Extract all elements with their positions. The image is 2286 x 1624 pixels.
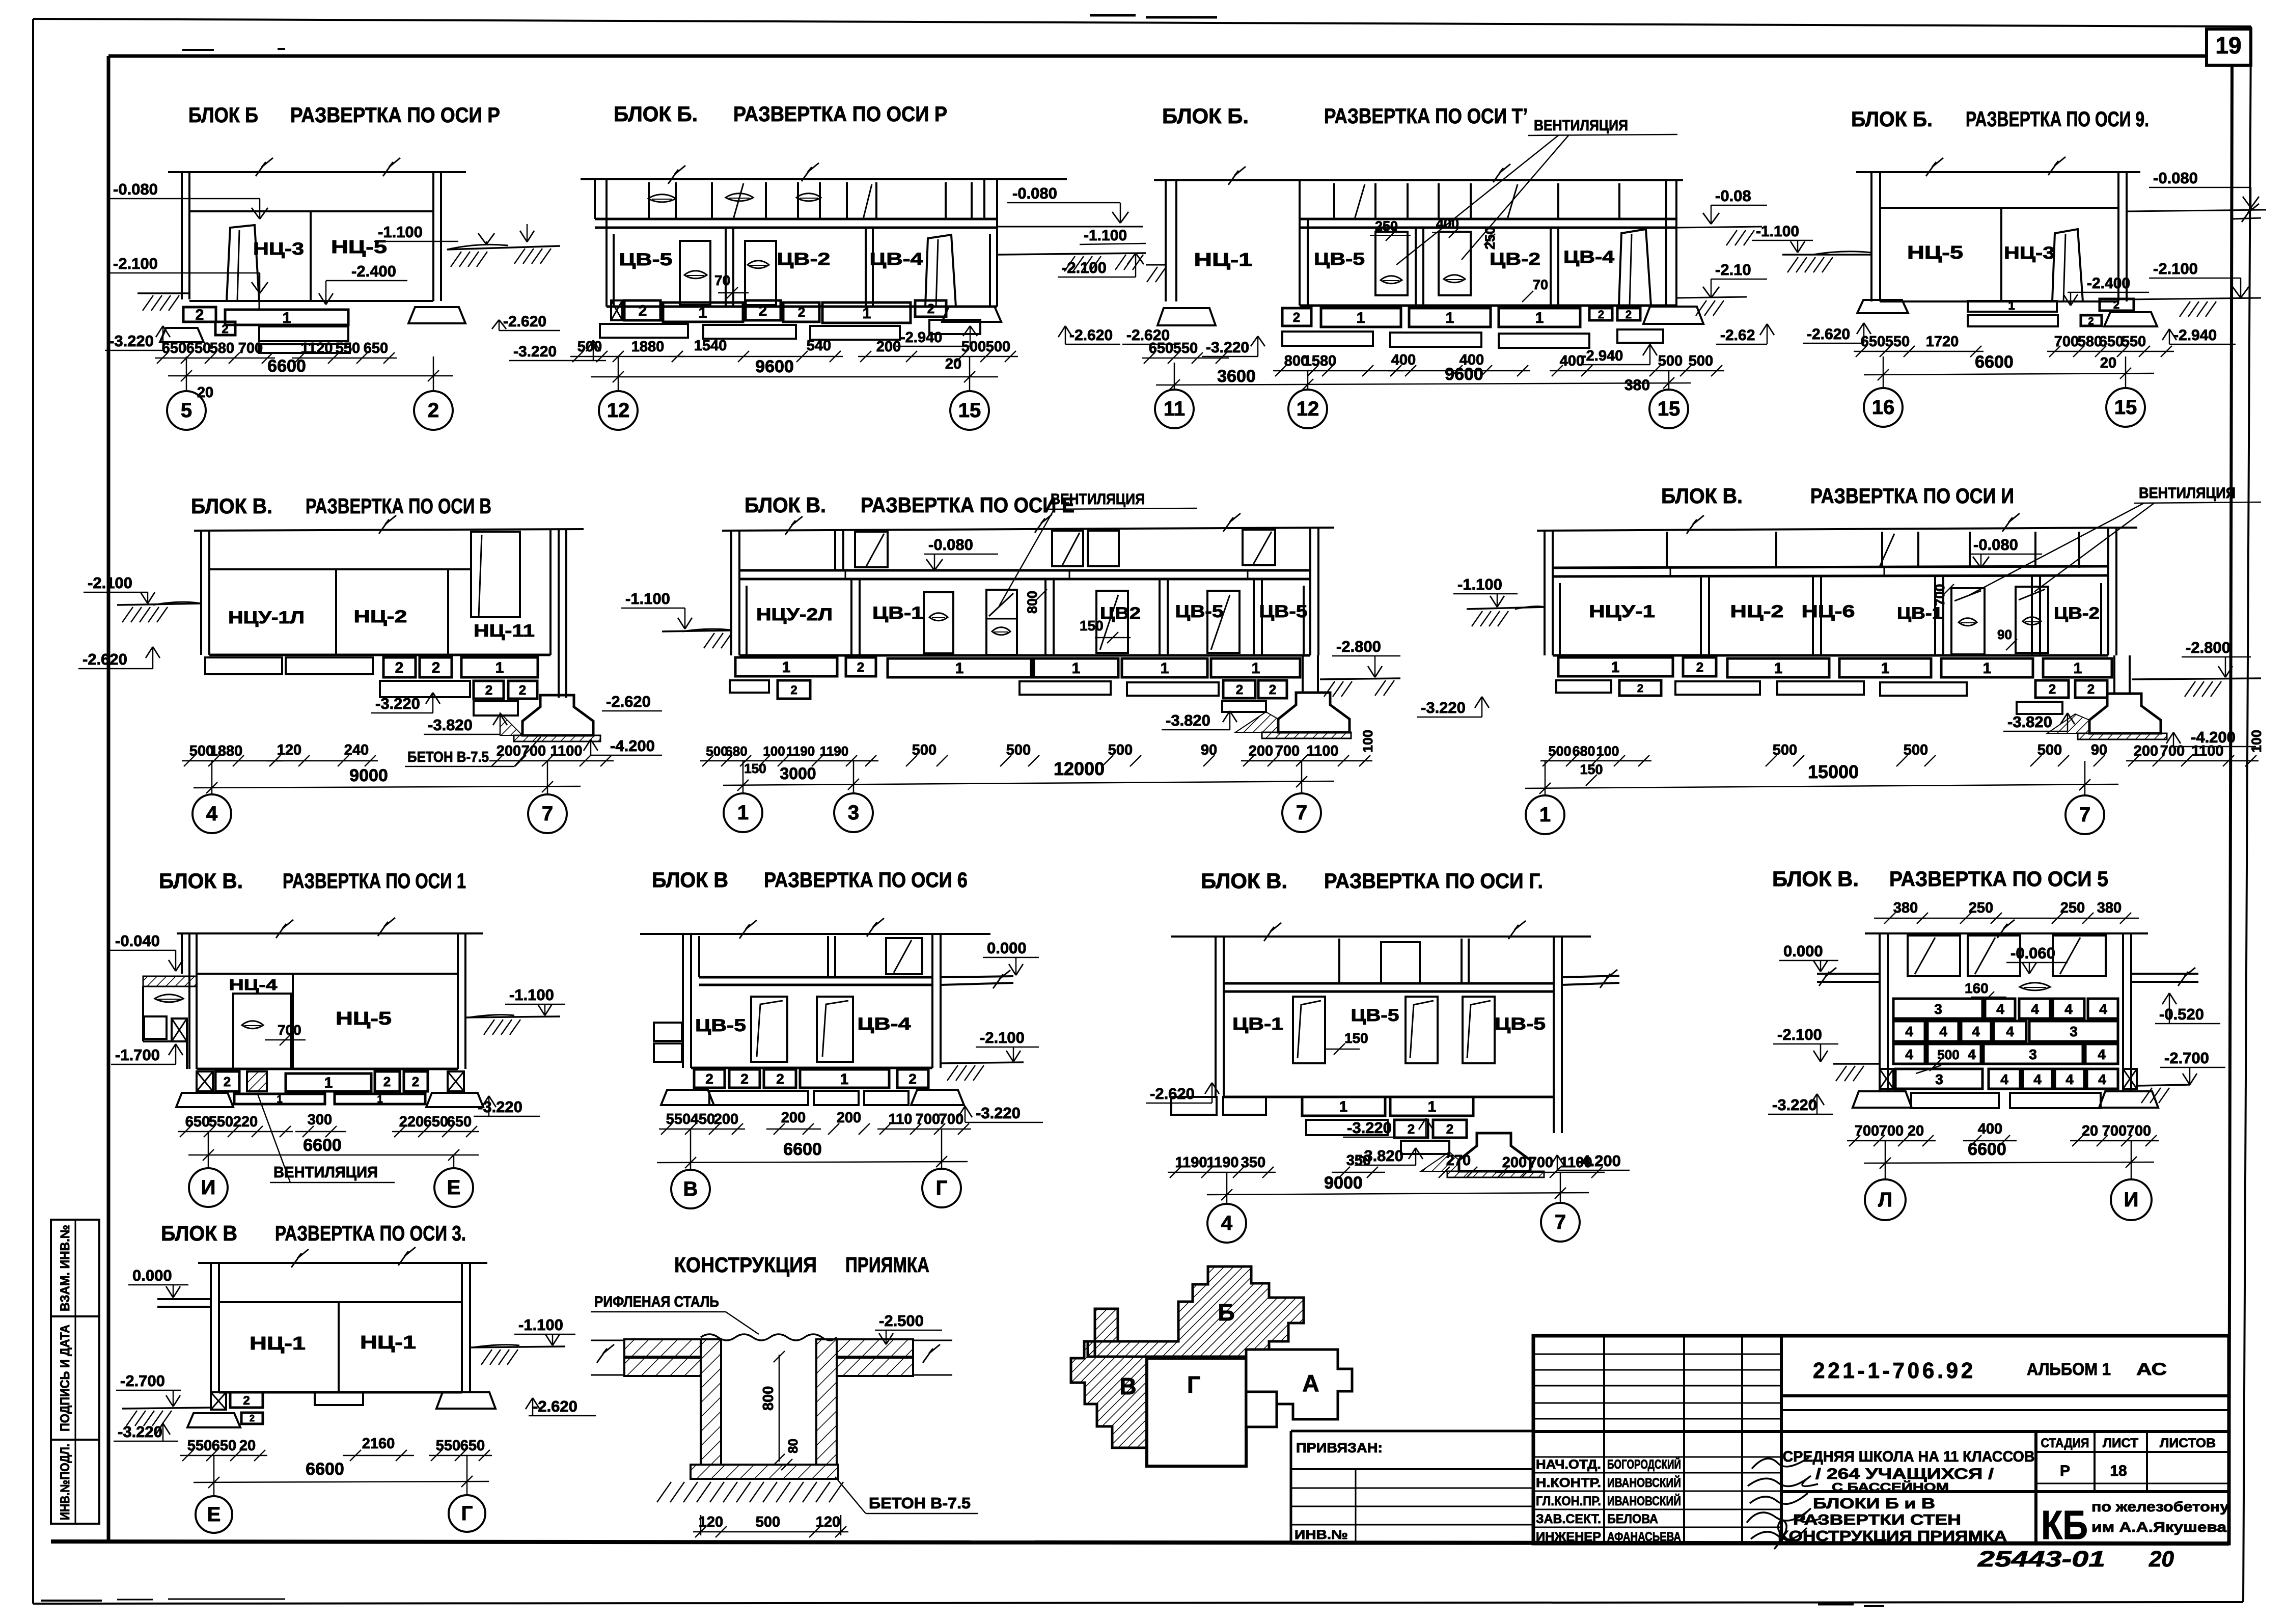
key plan block G (white) — [1147, 1358, 1246, 1466]
svg-text:250: 250 — [1969, 900, 1993, 916]
svg-text:160: 160 — [1965, 980, 1989, 996]
D6 sub overall 3000 — [780, 764, 816, 783]
D6 dimension chain — [700, 730, 1375, 776]
svg-text:700: 700 — [1879, 1123, 1904, 1139]
D6 foundation row3 strip — [1222, 701, 1266, 712]
svg-text:НЦ-2: НЦ-2 — [1730, 602, 1784, 621]
elevation D7 title — [1661, 484, 2014, 508]
svg-text:2: 2 — [705, 1071, 713, 1087]
svg-text:-3.220: -3.220 — [1347, 1119, 1392, 1137]
svg-text:20: 20 — [945, 356, 961, 372]
svg-text:-3.820: -3.820 — [1166, 711, 1210, 729]
D7 small dims 700 90 — [1932, 584, 2017, 650]
svg-text:2: 2 — [2087, 681, 2095, 697]
D8 annex vent symbol — [155, 995, 183, 1002]
svg-text:НЦ-1: НЦ-1 — [1194, 249, 1253, 270]
D2 window CV-5 — [680, 241, 710, 305]
D11 level -0.060 — [2006, 944, 2068, 974]
svg-text:БЛОК В.: БЛОК В. — [1772, 867, 1859, 891]
D2 dim 20 — [945, 356, 961, 372]
svg-text:200: 200 — [2134, 743, 2158, 759]
svg-text:-2.800: -2.800 — [1336, 638, 1381, 655]
D9 building walls — [683, 934, 941, 1068]
key plan block A (white) — [1246, 1350, 1352, 1427]
D8 panel label NC-5 — [336, 1008, 392, 1029]
D1 level -3.220 marker — [105, 326, 170, 350]
svg-text:800: 800 — [1025, 591, 1040, 614]
D12 right ground -1.100 — [470, 1316, 575, 1365]
svg-text:-2.100: -2.100 — [980, 1029, 1025, 1047]
D3 overall dimension line — [1156, 377, 1691, 391]
svg-text:-1.100: -1.100 — [518, 1316, 563, 1334]
svg-text:-1.100: -1.100 — [1457, 575, 1502, 593]
svg-text:700: 700 — [521, 743, 546, 759]
D7 overall dimension 15000 — [1525, 761, 2118, 794]
svg-text:И: И — [201, 1176, 216, 1199]
D3 axis circle 12 — [1288, 371, 1327, 428]
svg-text:ЦВ-2: ЦВ-2 — [777, 250, 831, 269]
D12 level -3.220 left — [114, 1423, 178, 1441]
svg-text:150: 150 — [1080, 618, 1104, 634]
svg-text:ЦВ-1: ЦВ-1 — [1897, 604, 1943, 622]
D4 building walls — [1871, 172, 2127, 301]
svg-text:АФАНАСЬЕВА: АФАНАСЬЕВА — [1607, 1530, 1681, 1544]
svg-text:1540: 1540 — [694, 338, 727, 354]
D10 level -3.820 — [1355, 1147, 1423, 1165]
D5 foundation blocks 2 2 1 — [383, 657, 538, 677]
D2 left level -3.220 — [509, 340, 606, 361]
svg-text:2: 2 — [927, 301, 934, 316]
D6 building walls — [731, 528, 1318, 655]
svg-text:680: 680 — [725, 744, 747, 759]
svg-text:1100: 1100 — [550, 743, 583, 759]
D8 left annex hatched slab — [143, 976, 197, 1041]
svg-text:2: 2 — [639, 302, 647, 319]
svg-text:1880: 1880 — [631, 339, 665, 355]
svg-text:4: 4 — [1996, 1001, 2004, 1017]
svg-text:НЦ-6: НЦ-6 — [1802, 602, 1855, 621]
svg-text:540: 540 — [807, 338, 831, 354]
D6 level -0.080 inside — [924, 536, 998, 570]
pit corrugated steel top — [701, 1334, 837, 1340]
D2 window CV-2 — [745, 241, 776, 305]
svg-text:НЦ-2: НЦ-2 — [354, 607, 407, 626]
svg-text:ПРИЯМКА: ПРИЯМКА — [845, 1253, 929, 1277]
D6 foundation row2 — [730, 680, 1287, 699]
svg-text:4: 4 — [2099, 1001, 2107, 1017]
svg-text:1: 1 — [955, 660, 964, 677]
D7 dimension chain — [1540, 730, 2264, 786]
D6 deep footing right — [1235, 655, 1351, 738]
svg-text:НАЧ.ОТД.: НАЧ.ОТД. — [1536, 1457, 1601, 1472]
svg-text:2: 2 — [519, 682, 526, 698]
svg-text:650: 650 — [447, 1114, 472, 1130]
svg-text:200: 200 — [497, 743, 521, 759]
D10 main band windows — [1293, 997, 1495, 1063]
left stamp column (rotated labels) — [51, 1220, 99, 1524]
D12 level 0.000 — [128, 1267, 188, 1298]
D6 axis circle 3 — [834, 761, 873, 832]
svg-text:19: 19 — [2215, 32, 2241, 59]
svg-text:650: 650 — [186, 340, 211, 356]
D11 overall dimension 6600 — [1864, 1140, 2154, 1169]
svg-text:РАЗВЕРТКА ПО ОСИ 5: РАЗВЕРТКА ПО ОСИ 5 — [1889, 867, 2108, 891]
svg-text:-2.620: -2.620 — [1807, 326, 1850, 343]
D12 level -2.620 right — [526, 1397, 596, 1416]
D2 right levels -0.080 -1.100 — [997, 184, 1146, 244]
D1 dimension chain — [155, 340, 397, 364]
D1 axis circle 5 — [167, 356, 206, 430]
D3 right footing pad — [1643, 307, 1703, 324]
svg-text:4: 4 — [1221, 1212, 1233, 1234]
svg-text:-3.220: -3.220 — [478, 1098, 522, 1116]
D6 door with vent — [986, 590, 1017, 655]
svg-text:2: 2 — [740, 1071, 749, 1087]
svg-text:1: 1 — [1983, 660, 1992, 677]
D1 panel labels — [253, 236, 387, 259]
svg-text:СТАДИЯ: СТАДИЯ — [2041, 1436, 2089, 1450]
svg-text:РАЗВЕРТКА ПО ОСИ Е: РАЗВЕРТКА ПО ОСИ Е — [861, 493, 1075, 517]
svg-text:2: 2 — [759, 302, 767, 319]
D8 level -1.700 — [111, 1044, 183, 1064]
svg-text:650: 650 — [460, 1438, 485, 1454]
svg-text:ЛИСТОВ: ЛИСТОВ — [2160, 1436, 2216, 1450]
D3 left footing pad — [1158, 308, 1216, 325]
pit level -2.500 — [875, 1312, 942, 1344]
D5 right level -2.620 — [602, 693, 662, 711]
svg-text:6600: 6600 — [306, 1460, 344, 1479]
D4 right footing pad — [2104, 312, 2157, 326]
svg-text:100: 100 — [2249, 730, 2264, 753]
D3 panel labels — [1314, 247, 1614, 269]
svg-text:2: 2 — [485, 682, 492, 698]
D4 roof line with break marks — [1856, 157, 2140, 176]
svg-text:Е: Е — [447, 1176, 461, 1199]
svg-text:НЦ-3: НЦ-3 — [253, 239, 304, 259]
D2 main band panels — [607, 228, 997, 307]
D12 panel labels — [250, 1332, 416, 1354]
svg-text:А: А — [1302, 1370, 1319, 1396]
svg-text:450: 450 — [691, 1111, 715, 1127]
D11 masonry row B — [1893, 1021, 2118, 1041]
svg-text:1120: 1120 — [301, 340, 333, 356]
svg-text:700: 700 — [2127, 1123, 2151, 1139]
svg-text:-2.400: -2.400 — [2087, 275, 2130, 292]
svg-text:В: В — [1119, 1373, 1136, 1399]
svg-text:70: 70 — [1533, 277, 1548, 292]
D11 footing pads row — [1853, 1091, 2158, 1108]
pit soil hatch below — [657, 1482, 843, 1502]
svg-text:11: 11 — [1164, 398, 1185, 420]
D7 main band dividers — [1560, 576, 2101, 655]
svg-text:1: 1 — [1072, 660, 1081, 677]
D2 right level -2.620 — [1058, 326, 1179, 344]
svg-text:БЕТОН В-7.5: БЕТОН В-7.5 — [407, 749, 489, 765]
D5 left ground -2.100 — [84, 574, 201, 622]
D10 axis circle 7 — [1541, 1172, 1580, 1242]
D8 right ground -1.100 — [465, 986, 565, 1035]
D8 ventilation note — [257, 1093, 395, 1182]
handwritten archive number 25443-01 20 — [1977, 1547, 2174, 1572]
svg-text:7: 7 — [2079, 804, 2090, 826]
svg-text:0.000: 0.000 — [1783, 942, 1823, 960]
svg-text:-0.060: -0.060 — [2010, 944, 2055, 962]
svg-text:БЛОКИ Б и В: БЛОКИ Б и В — [1813, 1496, 1935, 1512]
svg-text:-0.080: -0.080 — [2153, 169, 2198, 187]
D5 level -3.820 — [424, 714, 507, 734]
svg-text:ВЕНТИЛЯЦИЯ: ВЕНТИЛЯЦИЯ — [2139, 485, 2236, 502]
pit dimension chain 120 500 120 — [693, 1514, 848, 1537]
D7 roof line with break marks — [1537, 513, 2137, 534]
svg-text:В: В — [683, 1178, 698, 1200]
elevation D5 title — [191, 494, 491, 518]
svg-text:150: 150 — [1580, 762, 1603, 777]
svg-text:500: 500 — [756, 1514, 780, 1530]
svg-text:4: 4 — [2098, 1071, 2106, 1087]
svg-text:ИВАНОВСКИЙ: ИВАНОВСКИЙ — [1607, 1475, 1681, 1490]
svg-text:ЗАВ.СЕКТ.: ЗАВ.СЕКТ. — [1536, 1512, 1601, 1526]
svg-text:-2.10: -2.10 — [1715, 261, 1751, 279]
svg-text:80: 80 — [785, 1439, 801, 1453]
svg-text:650: 650 — [212, 1438, 236, 1454]
svg-text:550: 550 — [666, 1111, 691, 1127]
D6 overall dimension 12000 — [723, 758, 1334, 791]
svg-text:НЦ-1: НЦ-1 — [250, 1333, 306, 1354]
svg-text:по железобетону: по железобетону — [2091, 1499, 2229, 1515]
svg-text:РАЗВЕРТКА ПО ОСИ В: РАЗВЕРТКА ПО ОСИ В — [306, 494, 491, 518]
svg-text:650: 650 — [424, 1114, 448, 1130]
D8 axis circle I — [189, 1132, 228, 1207]
svg-text:-2.940: -2.940 — [900, 329, 942, 346]
svg-text:Л: Л — [1878, 1189, 1892, 1211]
svg-text:-0.080: -0.080 — [113, 180, 158, 198]
D8 level -0.040 — [108, 932, 183, 971]
svg-text:100: 100 — [763, 744, 785, 759]
svg-text:-2.100: -2.100 — [88, 574, 132, 592]
D12 roof line with break marks — [198, 1247, 487, 1268]
D9 roof line with break marks — [640, 918, 990, 939]
D11 clerestory windows — [1908, 935, 2106, 976]
svg-text:6600: 6600 — [267, 356, 306, 376]
svg-text:680: 680 — [1572, 744, 1595, 759]
svg-text:1: 1 — [1881, 660, 1890, 677]
svg-text:220: 220 — [233, 1114, 258, 1130]
D5 left level -2.620 — [78, 647, 160, 669]
svg-text:580: 580 — [210, 340, 234, 356]
D6 window CV-5 a — [1096, 591, 1128, 653]
svg-text:-1.700: -1.700 — [115, 1046, 160, 1064]
svg-text:20: 20 — [239, 1438, 256, 1454]
D10 clerestory cells — [1339, 939, 1469, 983]
svg-text:-0.080: -0.080 — [928, 536, 973, 554]
D11 roof line with break mark — [1865, 920, 2148, 938]
D9 panel labels — [695, 1014, 911, 1035]
svg-text:500: 500 — [1658, 353, 1683, 369]
D4 left level -2.620 — [1803, 323, 1871, 343]
svg-text:БЛОК В: БЛОК В — [652, 868, 728, 892]
svg-text:2: 2 — [243, 1394, 250, 1408]
svg-text:4: 4 — [2031, 1001, 2039, 1017]
svg-text:2: 2 — [1696, 659, 1703, 675]
D7 ventilation label with leaders — [1970, 485, 2261, 595]
D4 level -2.400 — [2063, 275, 2149, 306]
D1 foundation strips row2 — [259, 326, 350, 353]
title block sheet name — [1778, 1496, 2007, 1545]
D2 axis circle 15 — [950, 356, 989, 430]
svg-text:ЦВ-4: ЦВ-4 — [870, 250, 923, 269]
D7 axis circle 7 — [2065, 761, 2104, 834]
svg-text:4: 4 — [2006, 1024, 2014, 1039]
D3 window 400 — [1439, 232, 1471, 295]
svg-text:2: 2 — [2049, 681, 2056, 697]
svg-text:БЛОК В.: БЛОК В. — [1201, 869, 1287, 893]
key plan letter G — [1187, 1371, 1200, 1398]
D1 axis circle 2 — [414, 356, 453, 430]
D2 right ground -2.100 — [997, 253, 1146, 277]
svg-text:300: 300 — [308, 1112, 332, 1128]
svg-text:НЦ-1: НЦ-1 — [360, 1332, 416, 1353]
key plan letter V — [1119, 1373, 1136, 1399]
svg-text:ВЕНТИЛЯЦИЯ: ВЕНТИЛЯЦИЯ — [1051, 491, 1145, 508]
svg-text:БЛОК Б.: БЛОК Б. — [614, 102, 698, 126]
D2 panel labels — [619, 250, 923, 269]
svg-text:240: 240 — [344, 742, 369, 758]
D9 overall dimension 6600 — [657, 1140, 968, 1168]
D11 level 0.000 left — [1779, 942, 1838, 972]
svg-text:20: 20 — [2082, 1123, 2098, 1139]
svg-text:2: 2 — [2088, 316, 2094, 327]
svg-text:200: 200 — [714, 1111, 738, 1127]
svg-text:550: 550 — [336, 340, 360, 356]
D8 level -3.220 — [474, 1096, 540, 1116]
svg-text:ИНВ.№ПОДЛ.: ИНВ.№ПОДЛ. — [58, 1444, 72, 1520]
D11 side ledges — [1817, 968, 2198, 986]
D7 strip below footing — [2017, 702, 2062, 714]
D12 foundation xbox and blocks — [211, 1392, 263, 1424]
svg-text:4: 4 — [2064, 1001, 2073, 1017]
svg-text:400: 400 — [1436, 216, 1459, 231]
D3 dimension chain — [1273, 352, 1724, 376]
svg-text:150: 150 — [744, 761, 766, 776]
key plan block V (hatched) — [1071, 1309, 1147, 1448]
D1 roof line with break marks — [168, 158, 466, 176]
key plan letter B upper — [1218, 1299, 1234, 1326]
svg-text:И: И — [2124, 1189, 2139, 1211]
D3 window 250 — [1375, 232, 1408, 295]
D10 left level -2.620 — [1146, 1083, 1219, 1103]
svg-text:ЦВ-4: ЦВ-4 — [858, 1014, 911, 1034]
D8 inner rect NC-4 — [229, 977, 291, 1069]
svg-text:-0.520: -0.520 — [2159, 1005, 2204, 1023]
D10 axis circle 4 — [1207, 1172, 1246, 1243]
svg-text:700: 700 — [238, 340, 263, 356]
D6 main band dividers — [747, 579, 1304, 655]
elevation D8 title — [159, 869, 466, 893]
svg-text:7: 7 — [1555, 1211, 1566, 1233]
design bureau cell — [2041, 1499, 2229, 1548]
D2 level -2.940 marker — [896, 326, 977, 346]
svg-text:РАЗВЕРТКА ПО ОСИ Р: РАЗВЕРТКА ПО ОСИ Р — [733, 102, 947, 126]
svg-text:-1.100: -1.100 — [1084, 227, 1127, 244]
svg-text:БОГОРОДСКИЙ: БОГОРОДСКИЙ — [1607, 1456, 1681, 1472]
svg-text:-2.700: -2.700 — [120, 1372, 165, 1390]
svg-text:ВЕНТИЛЯЦИЯ: ВЕНТИЛЯЦИЯ — [1534, 117, 1628, 134]
D10 dim 150 — [1324, 1030, 1368, 1055]
elevation D2 title — [614, 102, 947, 126]
svg-text:3: 3 — [848, 802, 859, 824]
svg-text:НЦ-5: НЦ-5 — [336, 1008, 392, 1029]
svg-text:РАЗВЕРТКА ПО ОСИ 6: РАЗВЕРТКА ПО ОСИ 6 — [764, 868, 968, 892]
svg-text:-4.200: -4.200 — [2191, 728, 2236, 746]
svg-text:550: 550 — [187, 1438, 212, 1454]
D4 foundation small blocks 2 — [2081, 298, 2134, 327]
svg-text:2: 2 — [1293, 310, 1300, 325]
D11 axis circle L — [1865, 1141, 1906, 1220]
svg-text:НЦУ-1Л: НЦУ-1Л — [228, 608, 305, 627]
svg-text:380: 380 — [1893, 900, 1918, 916]
D4 left ground -1.100 — [1752, 223, 1871, 272]
svg-text:1: 1 — [2074, 660, 2082, 677]
svg-text:-2.100: -2.100 — [1777, 1026, 1822, 1043]
svg-text:12: 12 — [607, 399, 630, 422]
svg-text:1: 1 — [1535, 310, 1544, 326]
svg-text:1: 1 — [782, 659, 791, 676]
D2 roof line with break marks — [581, 163, 1067, 184]
signatures squiggles — [1747, 1457, 1821, 1549]
D3 foundation strips row2 — [1282, 329, 1663, 348]
pit detail title — [674, 1253, 929, 1277]
svg-text:7: 7 — [1296, 802, 1307, 824]
svg-text:им А.А.Якушева: им А.А.Якушева — [2091, 1519, 2226, 1535]
svg-text:120: 120 — [699, 1514, 723, 1530]
svg-text:ЦВ2: ЦВ2 — [1100, 604, 1141, 622]
D3 foundation blocks row1 — [1282, 308, 1640, 327]
D5 overall dimension 9000 — [194, 766, 581, 793]
svg-text:ИНЖЕНЕР: ИНЖЕНЕР — [1536, 1530, 1601, 1544]
svg-text:20: 20 — [2149, 1547, 2174, 1572]
svg-text:РАЗВЕРТКА ПО ОСИ Т’: РАЗВЕРТКА ПО ОСИ Т’ — [1324, 104, 1528, 128]
svg-text:1190: 1190 — [1175, 1154, 1207, 1171]
svg-text:РАЗВЕРТКА ПО ОСИ Р: РАЗВЕРТКА ПО ОСИ Р — [290, 103, 500, 127]
svg-text:Р: Р — [2060, 1463, 2070, 1479]
pit walls hatched — [701, 1339, 837, 1465]
svg-text:16: 16 — [1872, 396, 1895, 419]
svg-text:БЛОК Б.: БЛОК Б. — [1162, 104, 1249, 128]
D3 clerestory band right part — [1300, 183, 1676, 228]
svg-text:СРЕДНЯЯ ШКОЛА НА 11 КЛАССОВ: СРЕДНЯЯ ШКОЛА НА 11 КЛАССОВ — [1783, 1448, 2035, 1465]
svg-text:ЦВ-5: ЦВ-5 — [1175, 602, 1224, 621]
svg-text:1: 1 — [495, 659, 504, 676]
D12 axis circle E — [196, 1455, 232, 1533]
svg-text:1: 1 — [699, 305, 707, 321]
svg-text:4: 4 — [1905, 1024, 1913, 1039]
svg-text:18: 18 — [2110, 1463, 2127, 1479]
D3 axis circle 11 — [1155, 363, 1194, 428]
svg-text:700: 700 — [2102, 1123, 2127, 1139]
svg-text:650: 650 — [185, 1114, 210, 1130]
svg-text:550: 550 — [1173, 340, 1198, 356]
D3 main band dividers — [1300, 228, 1676, 306]
svg-text:ИНВ.№: ИНВ.№ — [1295, 1528, 1348, 1542]
D2 foundation strips row2 — [600, 320, 980, 340]
svg-text:380: 380 — [1624, 377, 1650, 394]
D7 foundation row2 — [1556, 680, 2107, 698]
svg-text:1580: 1580 — [1304, 353, 1337, 369]
key plan block B lower arm (hatched) — [0, 0, 1, 1]
D1 ground line left with hatch — [137, 293, 189, 311]
svg-text:БЛОК В.: БЛОК В. — [1661, 484, 1743, 508]
elevation D6 title — [745, 493, 1075, 517]
